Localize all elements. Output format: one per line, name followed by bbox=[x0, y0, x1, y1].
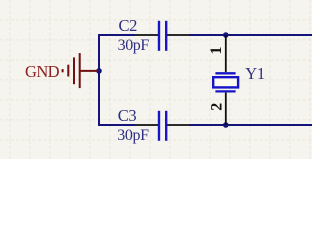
crystal Y1 body bbox=[213, 77, 238, 87]
GND bar 2 bbox=[73, 57, 75, 84]
crystal Y1 bottom electrode bbox=[215, 90, 235, 92]
GND power port stub bbox=[80, 70, 98, 72]
svg-text:GND: GND bbox=[25, 62, 60, 81]
junction node GND tap bbox=[96, 68, 102, 74]
svg-text:C2: C2 bbox=[119, 16, 138, 35]
sheet background bbox=[0, 0, 312, 159]
wire bottom horizontal left segment bbox=[98, 124, 135, 126]
crystal Y1 top electrode bbox=[215, 72, 235, 74]
GND bar 4 (smallest) bbox=[62, 69, 64, 72]
wire bottom horizontal right segment bbox=[189, 124, 312, 126]
svg-text:Y1: Y1 bbox=[245, 64, 265, 83]
wire top horizontal left segment bbox=[98, 34, 135, 36]
capacitor C2 pin 1 bbox=[135, 34, 158, 36]
capacitor C3 pin 2 bbox=[167, 124, 189, 126]
capacitor C2 pin 2 bbox=[167, 34, 189, 36]
capacitor C3 pin 1 bbox=[135, 124, 158, 126]
crystal Y1 pin 2 line bbox=[225, 93, 227, 125]
capacitor C3 right plate bbox=[165, 111, 167, 141]
capacitor C3 left plate bbox=[158, 111, 160, 141]
svg-text:C3: C3 bbox=[118, 106, 137, 125]
wire top horizontal right segment bbox=[189, 34, 312, 36]
svg-text:2: 2 bbox=[208, 103, 225, 111]
junction node top bbox=[223, 32, 229, 38]
GND bar 3 bbox=[67, 65, 69, 77]
GND bar 1 (tallest) bbox=[79, 53, 81, 88]
svg-text:1: 1 bbox=[208, 47, 225, 55]
svg-text:30pF: 30pF bbox=[117, 127, 149, 144]
junction node bottom bbox=[223, 122, 229, 128]
capacitor C2 right plate bbox=[165, 21, 167, 51]
wire left vertical bbox=[98, 34, 100, 126]
crystal Y1 pin 1 line bbox=[225, 35, 227, 72]
capacitor C2 left plate bbox=[158, 21, 160, 51]
svg-text:30pF: 30pF bbox=[118, 37, 150, 54]
